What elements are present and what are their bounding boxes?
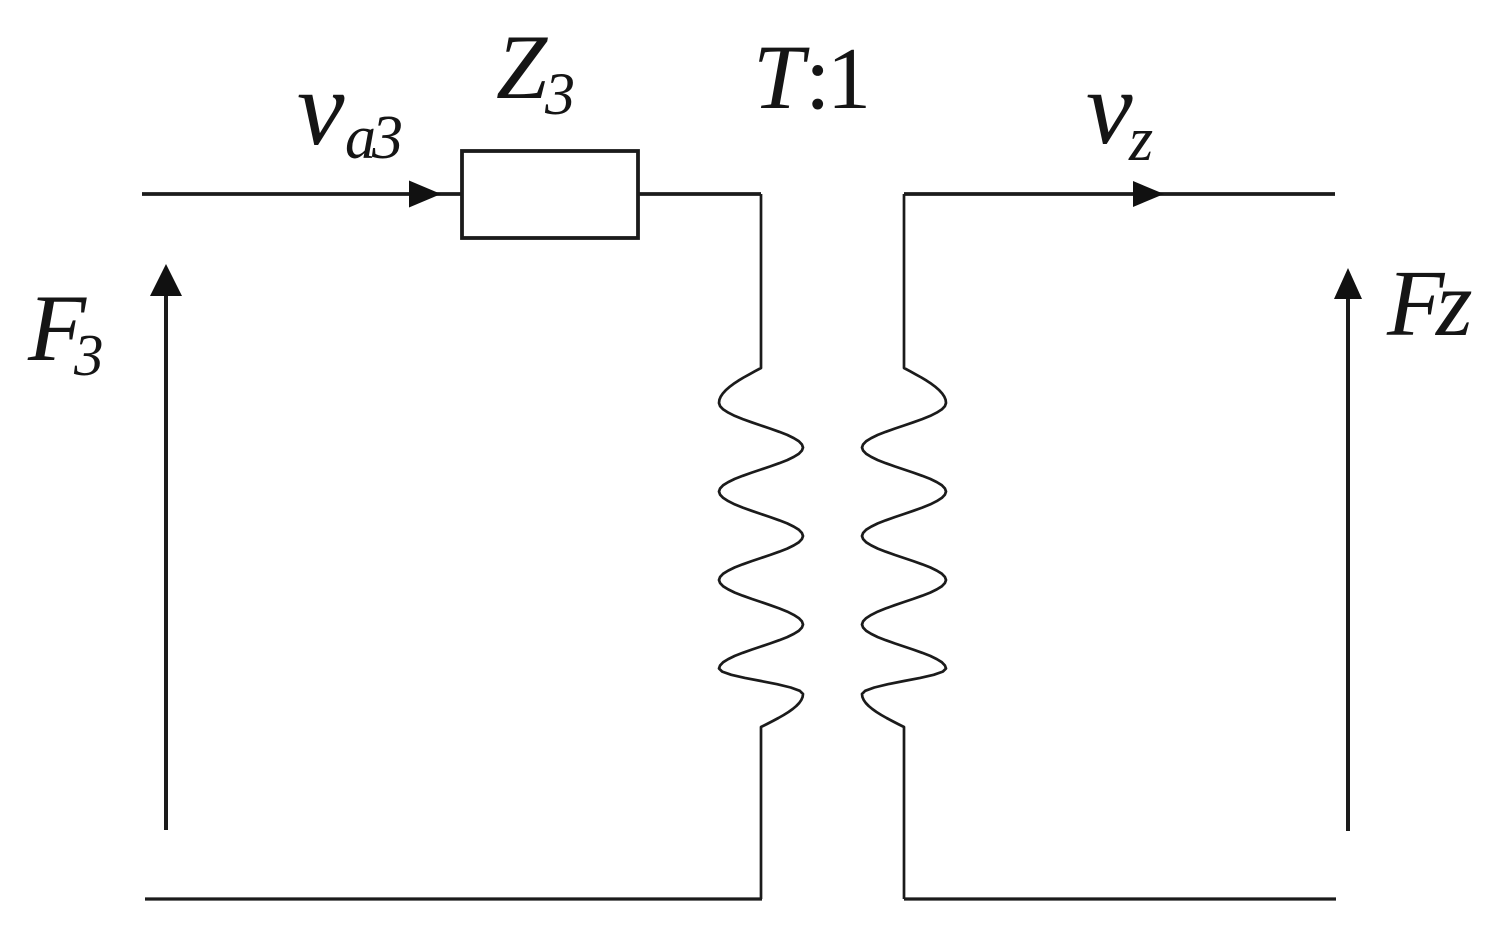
svg-text:z: z: [1128, 106, 1153, 174]
label F3: [27, 275, 104, 388]
svg-text:T: T: [753, 26, 810, 128]
label Z3: [496, 16, 575, 127]
label T:1 (transformer ratio): [753, 26, 871, 128]
wire: left input horizontal wire: [142, 192, 462, 196]
label Fz: [1386, 252, 1473, 356]
svg-text:3: 3: [371, 104, 403, 172]
svg-text:3: 3: [73, 322, 104, 388]
wire: bottom right return wire: [904, 897, 1336, 900]
transformer right winding: [862, 194, 946, 899]
transformer left winding: [719, 194, 803, 899]
wire: bottom left return wire: [145, 897, 762, 900]
svg-text:1: 1: [827, 31, 871, 128]
wire: box to left winding: [638, 192, 761, 196]
wire: right output horizontal wire: [904, 192, 1335, 196]
svg-text:v: v: [1086, 49, 1133, 166]
arrowhead on input wire (current direction): [409, 181, 441, 208]
svg-text:v: v: [297, 50, 345, 168]
impedance Z3 (box): [462, 151, 638, 238]
Fz arrow (right, pointing up): [1346, 296, 1350, 831]
arrowhead on output wire: [1133, 181, 1164, 207]
svg-text:3: 3: [544, 61, 575, 127]
svg-text:z: z: [1434, 252, 1473, 356]
svg-text:Z: Z: [496, 16, 548, 118]
label v_a3: [297, 50, 403, 172]
label v_z: [1086, 49, 1153, 174]
F3 arrow (left, pointing up): [164, 292, 168, 830]
